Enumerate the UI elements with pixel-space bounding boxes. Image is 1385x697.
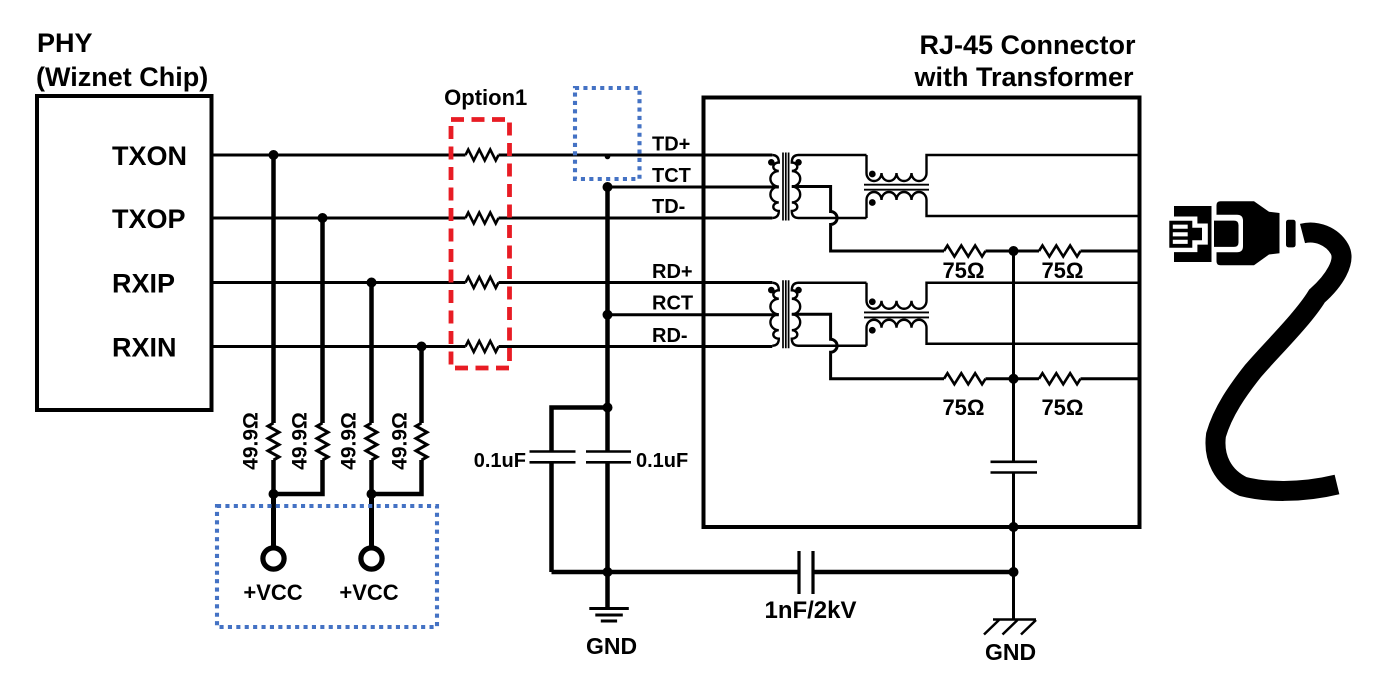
wire C4 to chassis	[1012, 473, 1015, 619]
wire vertical TXON tap to R1	[271, 155, 276, 423]
svg-text:(Wiznet Chip): (Wiznet Chip)	[36, 62, 208, 92]
resistor R4 49.9ohm	[416, 423, 427, 460]
wire vertical TXOP tap to R2	[320, 218, 325, 423]
RJ-45 connector box	[704, 98, 1140, 528]
node dot TXOP tap	[318, 213, 328, 223]
svg-text:RXIP: RXIP	[112, 269, 175, 299]
common-mode choke L1 top winding	[867, 155, 1140, 181]
Option1 red dashed box	[451, 120, 510, 369]
wire 75ohm junction vertical	[1012, 251, 1015, 461]
capacitor C3 1nF/2kV plates	[799, 551, 813, 594]
svg-text:PHY: PHY	[37, 28, 93, 58]
node dot TCT	[603, 182, 613, 192]
ground symbol GND (signal)	[589, 609, 629, 622]
svg-text:TD+: TD+	[652, 134, 690, 156]
blue dotted highlight box (top, at TD+/TCT junction)	[575, 88, 640, 179]
wire C2 bottom lead	[605, 462, 610, 572]
node dot RXIP tap	[367, 278, 377, 288]
resistor R_opt2 (Option1 series, TXOP line)	[466, 213, 499, 224]
wire drop to VCC terminal 1	[271, 494, 276, 548]
receive transformer + choke group (T2/L2, mirror of T1 shifted down)	[603, 280, 1140, 384]
svg-text:+VCC: +VCC	[243, 580, 302, 605]
wire TCT/RCT vertical bus	[605, 187, 610, 451]
svg-text:49.9Ω: 49.9Ω	[389, 412, 412, 470]
wire vertical RXIN tap to R4	[419, 347, 424, 424]
resistor R2 49.9ohm	[317, 423, 328, 460]
svg-text:49.9Ω: 49.9Ω	[240, 412, 263, 470]
resistor R_opt4 (Option1 series, RXIN line)	[466, 341, 499, 352]
wire between 75ohm resistors	[986, 250, 1040, 253]
transmit transformer + choke group	[603, 153, 1140, 257]
phase dot T1 secondary	[795, 159, 802, 166]
node dot cap branch	[603, 403, 613, 413]
blue dotted highlight box (bottom, around +VCC terminals)	[217, 506, 437, 627]
svg-text:75Ω: 75Ω	[942, 395, 984, 420]
resistor R3 49.9ohm	[366, 423, 377, 460]
wire R2 bottom to join	[274, 460, 323, 494]
wire T1 secondary center tap with hop	[792, 187, 944, 252]
svg-text:TD-: TD-	[652, 196, 685, 218]
resistor R_opt1 (Option1 series, TXON line)	[466, 150, 499, 161]
wire R3 bottom to join	[369, 460, 374, 494]
svg-text:75Ω: 75Ω	[1041, 395, 1083, 420]
wire 75ohm row to box edge	[1081, 250, 1140, 253]
terminal circle VCC1	[263, 548, 284, 569]
node dot at ground bus junction	[1009, 567, 1019, 577]
capacitor C4 plates	[991, 462, 1038, 473]
RJ45 plug icon: jack keystone black inner	[1169, 221, 1202, 248]
RJ45 plug icon: cable	[1215, 233, 1341, 491]
svg-text:1nF/2kV: 1nF/2kV	[764, 597, 856, 624]
svg-text:+VCC: +VCC	[339, 580, 398, 605]
svg-text:RXIN: RXIN	[112, 333, 177, 363]
phase dot T1 primary	[768, 159, 775, 166]
wire R4 bottom to join	[372, 460, 422, 494]
RJ45 plug icon: jack outer block	[1174, 206, 1212, 262]
resistor 75ohm row right	[1039, 246, 1081, 257]
node dot at box bottom crossing	[1009, 522, 1019, 532]
svg-text:TXON: TXON	[112, 141, 187, 171]
capacitor C2 0.1uF plates	[586, 452, 631, 463]
node dot 75ohm row junction	[1009, 246, 1019, 256]
RJ45 plug icon: plug body	[1217, 201, 1280, 265]
svg-text:RD-: RD-	[652, 325, 688, 347]
transformer T1 secondary winding	[792, 155, 867, 218]
wire RXIN / RD- with series resistor gap	[212, 345, 773, 348]
svg-text:GND: GND	[586, 633, 637, 659]
svg-text:75Ω: 75Ω	[1041, 258, 1083, 283]
RJ45 plug icon: strain relief bar	[1286, 220, 1296, 248]
wire RXIP / RD+ with series resistor gap	[212, 281, 773, 284]
wire R1 bottom to join	[271, 460, 276, 494]
capacitor C1 0.1uF plates	[530, 452, 576, 463]
phase dot L1 bottom	[869, 199, 876, 206]
node dot TXON tap	[269, 150, 279, 160]
svg-text:Option1: Option1	[444, 85, 527, 110]
svg-text:TCT: TCT	[652, 165, 691, 187]
phase dot L1 top	[869, 171, 876, 178]
svg-text:GND: GND	[985, 639, 1036, 665]
node dot ground bus at GND	[603, 567, 613, 577]
svg-text:RCT: RCT	[652, 293, 693, 315]
RJ45 plug icon: plug black D inner	[1214, 221, 1239, 247]
transformer T1 primary winding	[770, 155, 778, 218]
svg-text:with Transformer: with Transformer	[913, 62, 1134, 92]
wire C1 bottom lead	[549, 462, 554, 572]
transformer T1 core	[783, 153, 789, 221]
svg-text:RJ-45 Connector: RJ-45 Connector	[919, 30, 1136, 60]
node dot R1R2 join	[269, 489, 279, 499]
small node dot on TD+ line	[605, 154, 611, 160]
svg-text:RD+: RD+	[652, 261, 693, 283]
wire branch to left cap	[552, 408, 608, 452]
RJ45 plug icon: jack pins	[1173, 227, 1188, 242]
chassis ground symbol	[984, 620, 1036, 635]
node dot RXIN tap	[417, 342, 427, 352]
wire TXON / TD+ with series resistor gap	[212, 154, 773, 157]
svg-text:49.9Ω: 49.9Ω	[338, 412, 361, 470]
svg-text:75Ω: 75Ω	[942, 258, 984, 283]
svg-text:49.9Ω: 49.9Ω	[289, 412, 312, 470]
common-mode choke L1 core	[864, 185, 929, 190]
svg-text:0.1uF: 0.1uF	[636, 450, 688, 472]
svg-text:TXOP: TXOP	[112, 204, 186, 234]
wire GND stub	[605, 572, 610, 608]
wire TXOP / TD- with series resistor gap	[212, 217, 773, 220]
RJ45 plug icon: plug white D cutout	[1214, 215, 1243, 253]
PHY chip box U1	[37, 96, 212, 410]
resistor R1 49.9ohm	[268, 423, 279, 460]
wire ground bus	[552, 570, 1014, 575]
terminal circle VCC2	[361, 548, 382, 569]
node dot R3R4 join	[367, 489, 377, 499]
resistor R_opt3 (Option1 series, RXIP line)	[466, 277, 499, 288]
wire vertical RXIP tap to R3	[369, 283, 374, 424]
wire TCT center tap	[608, 186, 779, 189]
RJ45 plug icon: jack keystone white outline	[1166, 217, 1208, 253]
common-mode choke L1 bottom winding	[867, 192, 1140, 218]
svg-text:0.1uF: 0.1uF	[474, 450, 526, 472]
wire drop to VCC terminal 2	[369, 494, 374, 548]
resistor 75ohm row left	[944, 246, 986, 257]
